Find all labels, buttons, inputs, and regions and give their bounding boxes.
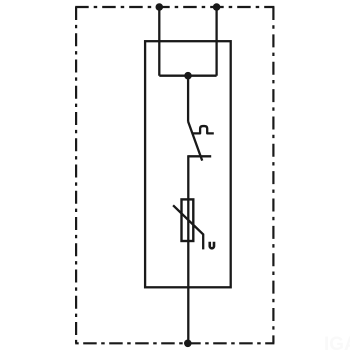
SPD body outline — [145, 41, 231, 287]
enclosure border top (dash-dot) — [75, 6, 274, 8]
wire: right terminal lead — [215, 7, 217, 76]
enclosure border right (dash-dot) — [272, 7, 274, 343]
wire: contact down through varistor to bottom terminal — [187, 155, 189, 343]
terminal 1 (top left) — [156, 3, 164, 11]
wire: junction down to disconnector — [187, 76, 189, 122]
terminal 2 (top right) — [213, 3, 221, 11]
thermal disconnector: fixed contact bar — [188, 155, 211, 157]
wire: left terminal lead — [158, 7, 160, 76]
svg-text:IGA: IGA — [324, 334, 350, 350]
enclosure border bottom (dash-dot) — [75, 342, 274, 344]
junction node (top connector midpoint) — [184, 72, 192, 80]
enclosure border left (dash-dot) — [75, 7, 77, 343]
bottom terminal node — [184, 340, 192, 348]
wire: top connector — [159, 75, 216, 77]
thermal disconnector: switch blade — [188, 122, 202, 161]
varistor RU body — [182, 199, 194, 241]
varistor label U — [210, 242, 214, 249]
thermal disconnector: thermal element (bump) — [193, 126, 214, 133]
varistor diagonal stroke with tail — [173, 205, 203, 249]
